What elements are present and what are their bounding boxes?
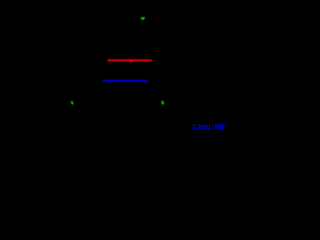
wire (blue, lower conductor) bbox=[103, 80, 148, 82]
green marker (lower-right) bbox=[161, 101, 164, 105]
green marker (top cursor) bbox=[140, 17, 145, 20]
current-direction arrow on red wire bbox=[129, 60, 134, 64]
green marker (lower-left) bbox=[71, 101, 74, 105]
signature text bbox=[192, 124, 224, 132]
wire (red, upper conductor) bbox=[108, 59, 152, 61]
